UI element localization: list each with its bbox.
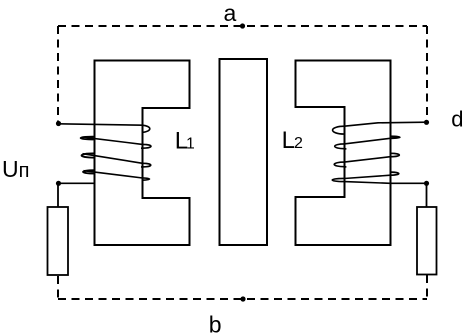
svg-text:L1: L1	[175, 128, 195, 155]
svg-text:a: a	[224, 0, 237, 26]
svg-text:L2: L2	[282, 127, 303, 154]
svg-text:Uп: Uп	[2, 156, 29, 182]
svg-text:b: b	[209, 311, 222, 335]
svg-text:d: d	[451, 106, 463, 131]
